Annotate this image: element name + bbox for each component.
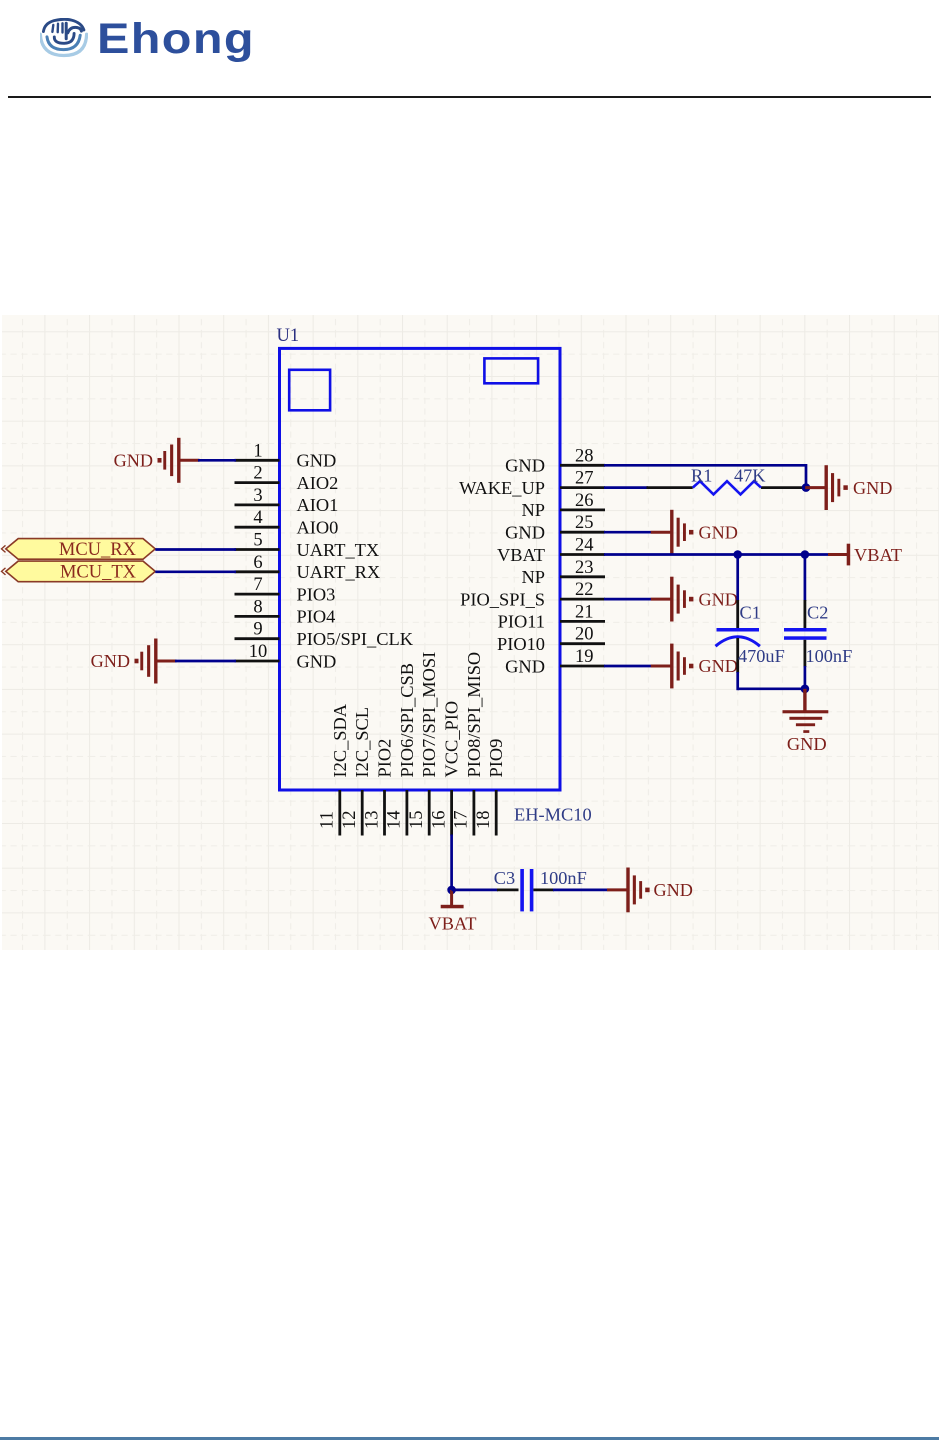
- resistor R1 47K: [647, 465, 807, 494]
- svg-text:GND: GND: [654, 880, 693, 900]
- pin 11 (I2C_SDA) bottom stub+number+name: [318, 703, 350, 835]
- svg-text:NP: NP: [521, 500, 545, 520]
- junction bottom rail / earth ground: [801, 685, 810, 694]
- port MCU_TX: [2, 561, 156, 583]
- pin 28 (GND) right stub+number+name: [505, 446, 605, 475]
- svg-text:NP: NP: [521, 567, 545, 587]
- op-amp/IC U1 body: [280, 348, 561, 790]
- svg-text:AIO2: AIO2: [297, 473, 339, 493]
- svg-text:GND: GND: [505, 523, 545, 543]
- svg-text:GND: GND: [699, 589, 738, 609]
- junction C1 top / VBAT rail: [733, 550, 742, 559]
- pin 24 (VBAT) right stub+number+name: [497, 536, 605, 565]
- svg-text:GND: GND: [91, 651, 130, 671]
- wire pin 28 to R1/GND junction: [604, 465, 806, 487]
- pin 17 (PIO8/SPI_MISO) bottom stub+number+name: [452, 652, 484, 836]
- svg-text:5: 5: [253, 531, 262, 551]
- pin 15 (PIO7/SPI_MOSI) bottom stub+number+name: [407, 652, 439, 836]
- svg-text:PIO4: PIO4: [297, 607, 336, 627]
- power port GND at pin 22: [651, 577, 738, 622]
- logo text Ehong: [97, 18, 255, 61]
- wire MCU_TX to pin 6: [155, 570, 236, 573]
- capacitor C1 470uF (polarized): [716, 555, 785, 691]
- svg-text:PIO10: PIO10: [497, 634, 545, 654]
- power port GND at pin 10: [91, 639, 177, 684]
- pin 1 (GND) left stub+number+name: [235, 441, 337, 470]
- svg-text:GND: GND: [787, 734, 827, 754]
- wire pin 25 to GND port: [604, 531, 651, 534]
- svg-text:VBAT: VBAT: [497, 545, 545, 565]
- svg-text:21: 21: [575, 602, 594, 622]
- pin 8 (PIO4) left stub+number+name: [235, 597, 336, 626]
- pin 23 (NP) right stub+number+name: [521, 558, 605, 587]
- svg-text:100nF: 100nF: [540, 868, 587, 888]
- svg-text:13: 13: [362, 811, 382, 830]
- wire C3 to GND port: [553, 889, 607, 892]
- pin 18 (PIO9) bottom stub+number+name: [474, 739, 506, 836]
- svg-text:GND: GND: [699, 656, 738, 676]
- wire pin 27 to R1: [604, 486, 648, 489]
- pin 26 (NP) right stub+number+name: [521, 491, 605, 520]
- pin 13 (PIO2) bottom stub+number+name: [362, 739, 394, 836]
- svg-text:MCU_TX: MCU_TX: [60, 563, 137, 583]
- svg-text:14: 14: [385, 811, 405, 830]
- svg-text:PIO9: PIO9: [486, 739, 506, 778]
- svg-text:GND: GND: [297, 651, 337, 671]
- svg-text:20: 20: [575, 625, 594, 645]
- svg-text:16: 16: [429, 811, 449, 830]
- svg-text:27: 27: [575, 469, 594, 489]
- svg-text:C3: C3: [494, 868, 515, 888]
- svg-text:10: 10: [249, 642, 268, 662]
- pin 3 (AIO1) left stub+number+name: [235, 486, 339, 515]
- pin 27 (WAKE_UP) right stub+number+name: [459, 469, 605, 498]
- svg-text:GND: GND: [853, 478, 892, 498]
- logo icon: [40, 18, 88, 58]
- svg-text:PIO11: PIO11: [498, 612, 545, 632]
- svg-text:PIO2: PIO2: [375, 739, 395, 778]
- svg-text:C2: C2: [807, 603, 828, 623]
- svg-text:25: 25: [575, 513, 594, 533]
- pin 20 (PIO10) right stub+number+name: [497, 625, 605, 654]
- pin 10 (GND) left stub+number+name: [235, 642, 337, 671]
- svg-text:100nF: 100nF: [806, 646, 853, 666]
- capacitor C3 100nF: [494, 868, 587, 911]
- power port VBAT bottom: [428, 890, 476, 934]
- svg-text:GND: GND: [114, 451, 153, 471]
- pin 9 (PIO5/SPI_CLK) left stub+number+name: [235, 620, 414, 649]
- pin 12 (I2C_SCL) bottom stub+number+name: [340, 707, 372, 836]
- junction C2 top / VBAT rail: [801, 550, 810, 559]
- junction R1 / pin28 / GND: [802, 483, 811, 492]
- svg-text:19: 19: [575, 647, 594, 667]
- svg-text:470uF: 470uF: [738, 646, 785, 666]
- svg-text:26: 26: [575, 491, 594, 511]
- svg-text:UART_TX: UART_TX: [297, 540, 380, 560]
- svg-text:GND: GND: [297, 451, 337, 471]
- junction VCC_PIO / VBAT / C3: [447, 886, 456, 895]
- svg-text:PIO5/SPI_CLK: PIO5/SPI_CLK: [297, 629, 414, 649]
- svg-text:6: 6: [253, 553, 262, 573]
- svg-text:PIO7/SPI_MOSI: PIO7/SPI_MOSI: [419, 652, 439, 778]
- pin 16 (VCC_PIO) bottom stub+number+name: [429, 701, 461, 836]
- header rule: [8, 96, 931, 98]
- pin 19 (GND) right stub+number+name: [505, 647, 605, 676]
- pin 21 (PIO11) right stub+number+name: [498, 602, 605, 631]
- svg-text:C1: C1: [740, 603, 761, 623]
- svg-text:PIO3: PIO3: [297, 584, 336, 604]
- svg-text:1: 1: [253, 441, 262, 461]
- power port GND at pin 25: [651, 510, 738, 555]
- pin 6 (UART_RX) left stub+number+name: [235, 553, 381, 582]
- capacitor C2 100nF: [784, 555, 852, 691]
- power port GND at pin 19: [651, 644, 738, 689]
- pin 7 (PIO3) left stub+number+name: [235, 575, 336, 604]
- svg-text:VBAT: VBAT: [854, 545, 902, 565]
- svg-text:8: 8: [253, 597, 262, 617]
- power port VBAT right: [828, 544, 902, 566]
- power port GND at pin 1: [114, 438, 200, 483]
- pin 22 (PIO_SPI_S) right stub+number+name: [460, 580, 605, 609]
- svg-text:24: 24: [575, 536, 594, 556]
- svg-text:I2C_SCL: I2C_SCL: [352, 707, 372, 778]
- svg-text:AIO0: AIO0: [297, 518, 339, 538]
- svg-text:2: 2: [253, 464, 262, 484]
- svg-text:12: 12: [340, 811, 360, 830]
- svg-text:15: 15: [407, 811, 427, 830]
- svg-text:PIO_SPI_S: PIO_SPI_S: [460, 589, 545, 609]
- svg-text:VBAT: VBAT: [428, 914, 476, 934]
- wire pin 16 VCC_PIO down: [450, 835, 453, 892]
- footer rule: [0, 1437, 939, 1440]
- wire C1/C2 bottom rail: [738, 687, 805, 690]
- wire pin 19 to GND port: [604, 665, 651, 668]
- svg-text:R1: R1: [691, 465, 712, 485]
- wire junction to C3: [452, 889, 498, 892]
- svg-text:AIO1: AIO1: [297, 495, 339, 515]
- svg-text:3: 3: [253, 486, 262, 506]
- pin 25 (GND) right stub+number+name: [505, 513, 605, 542]
- power port GND at C3: [607, 868, 693, 913]
- svg-text:28: 28: [575, 446, 594, 466]
- svg-text:23: 23: [575, 558, 594, 578]
- svg-text:22: 22: [575, 580, 594, 600]
- svg-text:PIO6/SPI_CSB: PIO6/SPI_CSB: [397, 663, 417, 777]
- wire pin 1 to GND port: [198, 459, 236, 462]
- pin 4 (AIO0) left stub+number+name: [235, 508, 339, 537]
- wire VBAT rail from pin 24: [604, 553, 829, 556]
- svg-text:UART_RX: UART_RX: [297, 562, 381, 582]
- port MCU_RX: [2, 539, 156, 561]
- svg-text:17: 17: [452, 811, 472, 830]
- svg-text:4: 4: [253, 508, 262, 528]
- pin 2 (AIO2) left stub+number+name: [235, 464, 339, 493]
- power port GND at R1 right: [805, 465, 892, 510]
- svg-text:EH-MC10: EH-MC10: [514, 805, 592, 825]
- wire MCU_RX to pin 5: [155, 548, 236, 551]
- earth ground GND below C1/C2: [783, 689, 829, 754]
- svg-text:11: 11: [318, 811, 338, 829]
- wire pin 10 to GND port: [175, 660, 236, 663]
- svg-text:MCU_RX: MCU_RX: [59, 540, 137, 560]
- pin 5 (UART_TX) left stub+number+name: [235, 531, 380, 560]
- svg-text:18: 18: [474, 811, 494, 830]
- wire pin 22 to GND port: [604, 598, 651, 601]
- svg-text:GND: GND: [505, 656, 545, 676]
- svg-text:PIO8/SPI_MISO: PIO8/SPI_MISO: [464, 652, 484, 778]
- svg-text:WAKE_UP: WAKE_UP: [459, 478, 545, 498]
- svg-text:GND: GND: [699, 522, 738, 542]
- svg-text:7: 7: [253, 575, 262, 595]
- svg-text:9: 9: [253, 620, 262, 640]
- svg-text:GND: GND: [505, 456, 545, 476]
- svg-text:47K: 47K: [734, 465, 766, 485]
- pin 14 (PIO6/SPI_CSB) bottom stub+number+name: [385, 663, 417, 835]
- svg-text:I2C_SDA: I2C_SDA: [330, 703, 350, 777]
- svg-text:VCC_PIO: VCC_PIO: [442, 701, 462, 778]
- svg-text:U1: U1: [277, 326, 300, 346]
